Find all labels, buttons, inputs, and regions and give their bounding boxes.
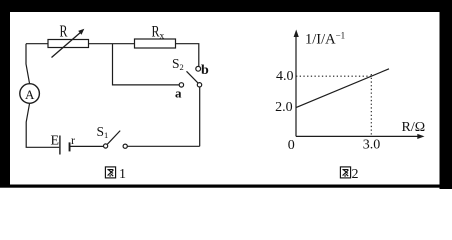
svg-text:0: 0: [288, 138, 295, 153]
switch S1 right contact circle: [123, 144, 127, 148]
dotted line horizontal at 4.0: [296, 75, 371, 77]
switch S2 lever: [187, 71, 198, 83]
rheostat arrow through R: [52, 29, 85, 58]
svg-text:a: a: [175, 86, 182, 101]
switch S1 lever: [107, 131, 120, 145]
contact b circle: [196, 66, 201, 71]
svg-text:A: A: [25, 87, 35, 102]
battery long plate: [59, 136, 61, 155]
svg-text:R/Ω: R/Ω: [402, 120, 426, 135]
wire: bottom right horizontal to S1: [127, 145, 199, 147]
svg-text:R: R: [152, 24, 160, 41]
svg-text:r: r: [71, 133, 75, 147]
frame border bottom: [0, 185, 452, 188]
wire: battery to bottom-left corner then up to ammeter: [26, 103, 59, 147]
svg-text:b: b: [201, 63, 209, 78]
wire: Rx to top-right corner down to contact b: [176, 44, 199, 67]
svg-text:3.0: 3.0: [363, 137, 381, 152]
dotted line vertical at 3.0: [370, 74, 372, 136]
ammeter A: [20, 84, 40, 104]
battery short plate: [69, 142, 71, 151]
wire: ammeter up to top-left corner: [26, 44, 30, 84]
graph x-axis: [296, 134, 425, 139]
svg-text:4.0: 4.0: [276, 69, 294, 84]
wire: junction stub down to contact a: [113, 44, 180, 85]
contact a circle: [179, 83, 183, 87]
switch S1 left circle: [104, 144, 108, 148]
switch S2 pole circle: [197, 83, 201, 87]
svg-text:1: 1: [119, 167, 126, 182]
wire: S1 to battery: [71, 145, 104, 147]
svg-text:E: E: [51, 134, 60, 149]
wire: top-left horizontal into R: [26, 43, 48, 45]
frame border right: [440, 0, 452, 189]
frame border left: [0, 0, 10, 185]
resistor Rx: [135, 39, 176, 48]
graph y-axis: [294, 30, 299, 137]
caption 图2 glyph: [340, 167, 350, 178]
svg-text:2.0: 2.0: [275, 100, 293, 115]
svg-text:2: 2: [352, 167, 359, 182]
caption 图1 glyph: [105, 167, 115, 178]
resistor R (rheostat box): [48, 40, 89, 48]
wire: R to Rx: [89, 43, 135, 45]
svg-text:x: x: [160, 32, 165, 42]
frame border top: [0, 0, 452, 12]
graph line: [296, 69, 389, 108]
wire: pole down right side: [199, 87, 201, 146]
svg-text:R: R: [60, 22, 68, 41]
